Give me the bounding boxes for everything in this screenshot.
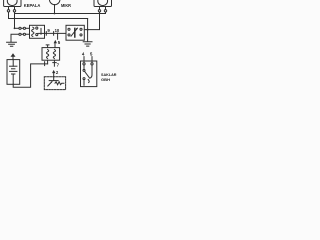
svg-text:GBH: GBH [101,77,110,82]
mic element stem [53,77,55,81]
TX arm arrowhead [76,28,78,30]
battery B1 top lead [12,60,14,67]
mic element plate [49,80,58,82]
SP2 lead left [99,7,101,10]
switch pin 5 stub [91,57,93,63]
RX inner post [40,28,42,34]
switch terminal 4 [83,63,85,65]
connector pin1 tick [44,62,46,66]
TX terminal lower-left [68,34,70,36]
connector pin5 arrow [54,40,57,43]
microphone MIC1 body [49,0,60,5]
switch contact upper [83,69,85,71]
wire pin2 to mic unit [53,73,55,77]
switch terminal 5 [91,63,93,65]
connector plug lower a [19,33,21,35]
coil unit top-left pin stub [46,45,49,48]
switch lower wire [83,80,85,86]
node receiver corner [14,27,16,29]
wire down to pin 5 [57,33,59,39]
coil winding 2 [53,50,55,59]
wire rail A [15,12,106,14]
wire SP1 terminal to receiver [14,12,16,28]
TX arm diagonal [71,28,77,36]
TX terminal lower-right [80,34,82,36]
mic arrow [48,82,52,86]
node G2 junction [87,29,89,31]
connector pin2 arrow [52,70,55,73]
wire rail B to ground G2 [87,19,89,42]
wire pin5 to coil unit [54,43,56,47]
SP2 terminal left [98,10,100,12]
connector plug upper a [19,27,21,29]
TX core bar [74,28,76,37]
hook switch unit box [81,61,97,87]
battery plate long 1 [10,65,17,67]
connector plug upper b [23,27,25,29]
SP1 lead right [14,7,16,10]
node junction dot [57,33,59,35]
RX terminal lower [36,34,38,36]
mic resistor zigzag [55,82,64,85]
ground G1 [7,42,17,46]
coil unit pin 7 stub [53,60,55,66]
SP1 terminal right [13,10,15,12]
SP1 terminal left [7,10,9,12]
svg-text:MIKR: MIKR [61,3,71,8]
battery B1 bottom lead [12,74,14,84]
RX tap wire [38,32,45,34]
connector tick 9 [45,32,47,36]
RX terminal upper [36,27,38,29]
wire RX lower pin to ground [11,34,30,41]
earpiece SP1 box [4,0,21,7]
svg-text:KEPALA: KEPALA [24,3,41,8]
SP2 terminal right [104,10,106,12]
battery plate short 2 [12,73,15,75]
earpiece SP2 cone [98,0,108,6]
TX terminal upper-left [68,28,70,30]
MIC1 stem wire [54,5,56,14]
RX coil [32,27,34,36]
mic arrowhead [51,81,53,83]
switch pin 4 stub [83,57,85,63]
wire TX to SP2 [84,12,99,30]
switch left pole wire [83,65,85,69]
battery plate long 2 [10,70,17,72]
ground G2 [83,42,92,46]
switch arm [85,71,90,77]
switch contact lower [83,78,85,80]
wire to RX upper pin [15,27,30,29]
battery unit box [7,60,20,85]
cord wire pins 9 and 10 [45,32,67,34]
transmitter unit box TX [66,25,84,40]
battery plate short 1 [12,68,15,70]
svg-text:10: 10 [55,28,60,33]
battery arrow stub [12,57,14,60]
microphone unit box [44,77,65,90]
switch spring [88,65,92,83]
SP2 lead right [105,7,107,10]
induction coil unit box [42,48,60,61]
node: mic to rail A [54,13,56,15]
earpiece SP2 box [94,0,112,7]
wire rail B [9,12,88,19]
receiver unit box RX [30,25,45,38]
node rail B junction [14,18,16,20]
earpiece SP1 cone [7,0,17,6]
battery connector arrow [11,53,16,57]
TX terminal upper-right [80,28,82,30]
cord wire to battery [13,64,47,87]
coil unit pin 1 stub [47,60,49,64]
SP1 lead left [8,7,10,10]
connector tick 10 [53,32,55,36]
connector plug lower b [23,33,25,35]
connector pin7 tick [53,62,56,64]
coil winding 1 [46,50,48,59]
